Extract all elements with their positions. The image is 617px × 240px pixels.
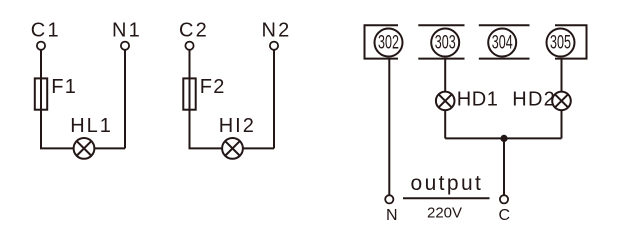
terminal 304 circle	[488, 29, 516, 57]
svg-text:HI2: HI2	[219, 115, 256, 137]
output 220V divider line	[403, 197, 490, 199]
svg-text:302: 302	[378, 32, 399, 53]
wire C2 vertical	[189, 50, 191, 148]
terminal 305 bracket	[555, 25, 587, 58]
svg-text:HD2: HD2	[512, 89, 556, 111]
terminal node N2	[270, 42, 278, 50]
svg-text:C1: C1	[31, 20, 61, 42]
terminal node N output	[385, 195, 393, 203]
svg-text:output: output	[411, 172, 484, 195]
terminal 302 bracket	[365, 25, 399, 58]
wire N from 302	[388, 59, 390, 195]
svg-text:N1: N1	[112, 20, 142, 42]
terminal node C1	[37, 42, 45, 50]
wire junction to C	[503, 138, 505, 194]
fuse F2	[183, 78, 195, 109]
fuse F1	[35, 78, 47, 109]
svg-text:220V: 220V	[427, 204, 462, 221]
svg-text:C2: C2	[179, 20, 209, 42]
svg-text:304: 304	[492, 32, 513, 53]
lamp HD1	[436, 92, 455, 111]
lamp HD2	[552, 92, 571, 111]
svg-text:N: N	[386, 207, 398, 224]
svg-text:303: 303	[435, 32, 456, 53]
terminal 302 circle	[375, 29, 403, 57]
terminal node N1	[121, 42, 129, 50]
terminal 304 strip lines	[479, 25, 530, 58]
terminal 305 circle	[547, 29, 575, 57]
wire N1 vertical	[124, 50, 126, 148]
junction dot	[500, 135, 507, 142]
wire N2 vertical	[273, 50, 275, 148]
svg-text:HL1: HL1	[70, 115, 113, 137]
terminal node C2	[185, 42, 193, 50]
terminal 303 circle	[431, 29, 459, 57]
wire 303 to HD1 to junction	[444, 59, 446, 139]
lamp HL1	[74, 138, 95, 159]
wire C1 vertical	[40, 50, 42, 148]
svg-text:305: 305	[550, 32, 571, 53]
svg-text:F2: F2	[200, 76, 226, 98]
svg-text:HD1: HD1	[457, 89, 499, 111]
wire HL1 bottom horizontal	[40, 147, 125, 149]
svg-text:F1: F1	[51, 76, 77, 98]
lamp HI2	[222, 138, 243, 159]
wire junction horizontal	[445, 137, 561, 139]
terminal 303 strip lines	[418, 25, 464, 58]
wire HI2 bottom horizontal	[189, 147, 275, 149]
svg-text:C: C	[499, 207, 511, 224]
wire 305 to HD2 to junction	[561, 59, 563, 139]
svg-text:N2: N2	[262, 20, 292, 42]
terminal node C output	[500, 195, 508, 203]
